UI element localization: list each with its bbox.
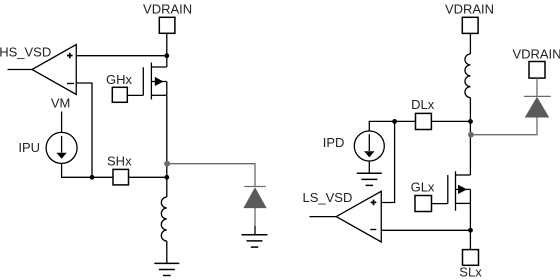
svg-text:HS_VSD: HS_VSD — [0, 44, 51, 59]
svg-text:LS_VSD: LS_VSD — [303, 190, 353, 205]
svg-text:VM: VM — [51, 96, 71, 111]
svg-text:GHx: GHx — [106, 72, 133, 87]
svg-text:VDRAIN: VDRAIN — [143, 2, 192, 17]
svg-text:SHx: SHx — [107, 154, 132, 169]
svg-text:GLx: GLx — [411, 179, 435, 194]
svg-text:IPD: IPD — [323, 135, 345, 150]
svg-text:IPU: IPU — [18, 140, 40, 155]
svg-text:VDRAIN: VDRAIN — [512, 47, 560, 62]
svg-text:VDRAIN: VDRAIN — [445, 2, 494, 17]
svg-text:DLx: DLx — [411, 97, 435, 112]
svg-text:SLx: SLx — [459, 264, 482, 279]
